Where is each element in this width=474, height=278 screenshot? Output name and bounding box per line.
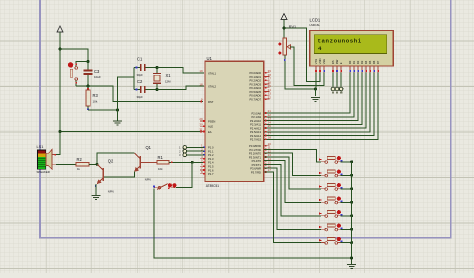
wire Q2 emitter to ground xyxy=(95,184,97,195)
wire XTAL1 net xyxy=(157,68,204,74)
wire switch to rail xyxy=(341,161,352,163)
sheet border xyxy=(40,0,451,238)
push switch row 6 xyxy=(321,224,341,231)
resistor R3 xyxy=(86,90,90,106)
svg-text:30pF: 30pF xyxy=(137,73,144,77)
wire P3.3 to switch 3 xyxy=(264,157,321,189)
svg-text:PSEN: PSEN xyxy=(208,119,215,123)
svg-text:AT89C51: AT89C51 xyxy=(206,184,219,188)
junction rail xyxy=(350,174,353,177)
svg-text:P3.7/RD: P3.7/RD xyxy=(251,170,261,174)
wire P3.5 to switch 5 xyxy=(264,164,321,215)
wire ground rail xyxy=(351,162,353,264)
junction EA tap xyxy=(59,130,62,133)
svg-text:D6: D6 xyxy=(372,60,376,64)
wire down to button 2 xyxy=(176,162,192,187)
svg-text:P1.7: P1.7 xyxy=(208,172,214,176)
resistor R1 xyxy=(157,161,169,165)
svg-text:RS: RS xyxy=(331,60,335,64)
wire P3.7 to switch 7 xyxy=(264,172,321,243)
ground left xyxy=(113,121,122,125)
power symbol VCC left xyxy=(57,26,63,38)
wire P3.4 to switch 4 xyxy=(264,161,321,203)
svg-text:P2.5/A13: P2.5/A13 xyxy=(250,130,262,134)
transistor Q1 xyxy=(135,153,157,171)
wire pot bottom to ground net xyxy=(285,55,316,89)
svg-text:P3.4/T0: P3.4/T0 xyxy=(252,159,262,163)
svg-text:C2: C2 xyxy=(137,79,143,84)
wire C2 right xyxy=(146,89,157,91)
junction rail bottom xyxy=(350,257,353,260)
junction rail xyxy=(350,187,353,190)
junction rail xyxy=(350,241,353,244)
wire X1 bottom stub xyxy=(156,84,158,90)
svg-text:P3.3/INT1: P3.3/INT1 xyxy=(249,155,262,159)
svg-text:P2.1/A9: P2.1/A9 xyxy=(251,115,261,119)
svg-text:D2: D2 xyxy=(356,60,360,64)
svg-text:RW: RW xyxy=(335,59,339,64)
wire R3 top stub xyxy=(87,86,89,90)
wire to P1.4 xyxy=(192,161,204,163)
svg-text:P0.5/AD5: P0.5/AD5 xyxy=(249,90,261,94)
wire P2.7 to LCD D7 xyxy=(264,73,378,140)
svg-text:XTAL2: XTAL2 xyxy=(208,85,217,89)
wire R1 right xyxy=(169,161,192,163)
svg-text:P0.0/AD0: P0.0/AD0 xyxy=(249,71,261,75)
svg-text:E: E xyxy=(339,62,343,64)
wire VSS down xyxy=(315,73,317,89)
svg-text:P0.2/AD2: P0.2/AD2 xyxy=(249,79,261,83)
svg-text:P0.3/AD3: P0.3/AD3 xyxy=(249,82,261,86)
transistor Q2 xyxy=(97,165,103,184)
svg-text:18: 18 xyxy=(199,82,203,86)
wire control stub xyxy=(332,73,334,88)
svg-text:RST: RST xyxy=(208,100,214,104)
wire node A to Q1 collector xyxy=(97,153,135,164)
svg-text:P2.6/A14: P2.6/A14 xyxy=(250,134,262,138)
svg-text:tanzounoshi: tanzounoshi xyxy=(318,37,362,44)
svg-text:P2.4/A12: P2.4/A12 xyxy=(250,126,262,130)
wire P3.6 to switch 6 xyxy=(264,168,321,229)
wire X1 top stub xyxy=(156,68,158,73)
svg-text:U1: U1 xyxy=(207,56,213,61)
wire switch to rail xyxy=(341,188,352,190)
svg-text:P3.6/WR: P3.6/WR xyxy=(250,167,261,171)
svg-text:P0.4/AD4: P0.4/AD4 xyxy=(249,86,261,90)
svg-text:LCD1: LCD1 xyxy=(310,18,321,23)
wire C1 left stub xyxy=(134,67,140,69)
wire R3 to ground node xyxy=(88,109,118,111)
junction rail xyxy=(350,228,353,231)
junction node button/C3 top xyxy=(87,60,90,63)
wire to ground symbol xyxy=(117,110,119,121)
junction rail xyxy=(350,160,353,163)
wire pot wiper to VEE xyxy=(290,47,324,86)
wire P2.6 to LCD D6 xyxy=(264,73,374,136)
svg-text:P0.6/AD6: P0.6/AD6 xyxy=(249,94,261,98)
svg-text:P3.0/RXD: P3.0/RXD xyxy=(249,144,261,148)
svg-text:EA: EA xyxy=(208,130,212,134)
wire speaker to R2 xyxy=(56,163,76,165)
svg-text:P1.5: P1.5 xyxy=(208,165,214,169)
svg-text:D4: D4 xyxy=(364,60,368,64)
wire XTAL2 net xyxy=(157,86,204,89)
wire power rail down xyxy=(59,49,61,132)
wire P3.2 to switch 2 xyxy=(264,153,321,175)
svg-text:R3: R3 xyxy=(93,93,99,98)
wire R3 bottom stub xyxy=(87,106,89,110)
wire C1 right xyxy=(146,67,157,69)
svg-text:P1.1: P1.1 xyxy=(208,149,214,153)
svg-text:D5: D5 xyxy=(368,60,372,64)
svg-text:R1: R1 xyxy=(158,155,164,160)
wire button1 bottom pin xyxy=(75,81,77,86)
svg-text:C1: C1 xyxy=(137,57,143,62)
push switch row 2 xyxy=(321,170,341,177)
svg-text:R2: R2 xyxy=(77,157,83,162)
wire terminal to P1.0 xyxy=(187,146,205,148)
push button 2 xyxy=(154,184,176,190)
junction rail xyxy=(350,201,353,204)
svg-text:LM016L: LM016L xyxy=(310,23,321,27)
svg-text:D1: D1 xyxy=(352,60,356,64)
wire switch to rail xyxy=(341,228,352,230)
junction power rail xyxy=(59,48,62,51)
wire rail to speaker + xyxy=(56,132,60,155)
wire RST net xyxy=(88,86,203,102)
svg-text:P0.1/AD1: P0.1/AD1 xyxy=(249,75,261,79)
svg-text:31: 31 xyxy=(199,128,203,132)
push switch row 7 xyxy=(321,237,341,244)
svg-text:D0: D0 xyxy=(348,60,352,64)
push switch row 4 xyxy=(321,197,341,204)
junction VSS ground xyxy=(314,88,317,91)
svg-text:P1.4: P1.4 xyxy=(208,161,214,165)
svg-text:D7: D7 xyxy=(376,60,380,64)
svg-text:P1.6: P1.6 xyxy=(208,168,214,172)
wire C3 top stub xyxy=(87,62,89,70)
push switch row 3 xyxy=(321,184,341,191)
wire power to pot xyxy=(283,20,285,39)
svg-text:D3: D3 xyxy=(360,60,364,64)
junction ground node left xyxy=(116,109,119,112)
wire C2 left stub xyxy=(134,89,140,91)
svg-text:LS1: LS1 xyxy=(37,144,44,149)
svg-text:ALE: ALE xyxy=(208,125,213,129)
wire switch to rail xyxy=(341,215,352,217)
svg-text:Q1: Q1 xyxy=(146,145,152,150)
svg-text:19: 19 xyxy=(199,69,203,73)
svg-text:NPN: NPN xyxy=(108,190,114,194)
wire to LCD ground xyxy=(315,89,317,96)
junction node A xyxy=(96,163,99,166)
ground LCD xyxy=(311,97,320,101)
svg-text:10k: 10k xyxy=(158,167,163,171)
svg-text:P2.0/A8: P2.0/A8 xyxy=(251,111,261,115)
wire button1 bottom xyxy=(76,85,88,87)
junction rail xyxy=(350,214,353,217)
push switch row 1 xyxy=(321,157,341,164)
wire C1C2 common to ground xyxy=(118,77,135,110)
junction R1/button net xyxy=(191,161,194,164)
svg-text:P2.3/A11: P2.3/A11 xyxy=(250,123,261,127)
terminal circles P1.0-P1.2 xyxy=(183,146,187,150)
wire EA to VCC xyxy=(60,131,200,133)
wire to button/C3 node xyxy=(60,49,88,62)
svg-text:4: 4 xyxy=(318,45,322,52)
wire control stub xyxy=(340,73,342,88)
wire terminal to P1.2 xyxy=(187,154,205,156)
svg-text:10k: 10k xyxy=(93,100,98,104)
svg-text:P2.7/A15: P2.7/A15 xyxy=(250,138,262,142)
svg-text:P1.3: P1.3 xyxy=(208,157,214,161)
svg-text:Q2: Q2 xyxy=(108,159,114,164)
wire switch to rail xyxy=(341,174,352,176)
svg-text:P3.1/TXD: P3.1/TXD xyxy=(249,148,261,152)
svg-text:X1: X1 xyxy=(166,73,172,78)
wire P2.1 to LCD D1 xyxy=(264,73,354,117)
wire control stub xyxy=(336,73,338,88)
wire switch to rail xyxy=(341,242,352,244)
svg-text:P3.2/INT0: P3.2/INT0 xyxy=(249,152,262,156)
svg-text:RV1: RV1 xyxy=(289,25,296,29)
resistor R2 xyxy=(76,163,89,167)
junction C3/R3/RST node xyxy=(87,85,90,88)
svg-text:C3: C3 xyxy=(94,69,100,74)
svg-text:XTAL1: XTAL1 xyxy=(208,71,217,75)
wire P2.5 to LCD D5 xyxy=(264,73,370,132)
wire power to junction xyxy=(59,32,61,49)
push switch row 5 xyxy=(321,211,341,218)
wire Q1 emitter to Q2 base xyxy=(104,171,135,177)
wire switch to rail xyxy=(341,201,352,203)
U1 AT89C51 microcontroller xyxy=(205,61,264,181)
svg-text:P2.2/A10: P2.2/A10 xyxy=(250,119,262,123)
junction VDD tap xyxy=(283,27,286,30)
LCD pins xyxy=(315,66,317,73)
wire R2 to node A xyxy=(89,163,97,165)
wire P2.4 to LCD D4 xyxy=(264,73,366,128)
svg-text:10uF: 10uF xyxy=(94,75,101,79)
junction crystal bottom xyxy=(156,88,159,91)
wire P2.0 to LCD D0 xyxy=(264,73,350,113)
svg-text:30pF: 30pF xyxy=(137,95,144,99)
wire P3.1 to switch 1 xyxy=(264,149,321,161)
svg-text:VSS: VSS xyxy=(314,59,318,65)
ground Q2 xyxy=(92,196,101,200)
wire button2 to ground rail xyxy=(154,189,351,258)
svg-text:12M: 12M xyxy=(165,79,171,83)
wire C1C2 left rail xyxy=(133,68,135,90)
svg-text:P0.7/AD7: P0.7/AD7 xyxy=(249,97,261,101)
ground rail xyxy=(347,265,356,269)
wire C3 bottom stub xyxy=(87,75,89,86)
wire P2.3 to LCD D3 xyxy=(264,73,362,125)
svg-text:P3.5/T1: P3.5/T1 xyxy=(252,163,262,167)
junction crystal top xyxy=(156,66,159,69)
svg-text:VEE: VEE xyxy=(322,59,326,65)
wire VDD net xyxy=(284,28,320,82)
svg-text:P1.2: P1.2 xyxy=(208,153,214,157)
power symbol VCC right xyxy=(281,14,287,26)
svg-text:SPEAKER: SPEAKER xyxy=(37,170,50,174)
wire terminal to P1.1 xyxy=(187,150,205,152)
wire P2.2 to LCD D2 xyxy=(264,73,358,121)
svg-text:P1.0: P1.0 xyxy=(208,146,214,150)
svg-text:VDD: VDD xyxy=(318,58,322,64)
wire button1 top pin xyxy=(76,62,88,67)
svg-text:NPN: NPN xyxy=(145,178,151,182)
